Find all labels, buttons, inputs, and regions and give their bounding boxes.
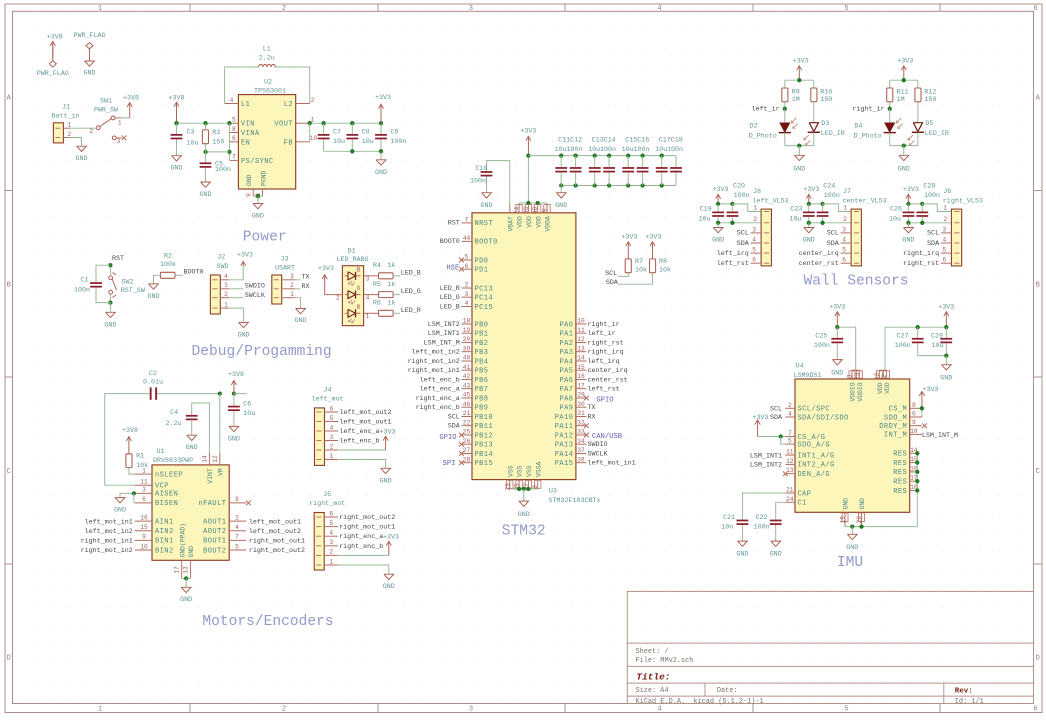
svg-text:left_ir: left_ir <box>588 330 616 338</box>
svg-text:GND: GND <box>252 213 264 221</box>
svg-text:right_mot_in1: right_mot_in1 <box>81 538 133 546</box>
wire <box>921 217 923 223</box>
svg-text:PB10: PB10 <box>475 414 494 422</box>
ground <box>518 501 530 519</box>
svg-text:40: 40 <box>463 355 471 362</box>
svg-text:6: 6 <box>752 257 756 264</box>
junction <box>915 451 919 455</box>
svg-text:Title:: Title: <box>636 672 670 683</box>
wire <box>808 204 810 212</box>
svg-text:30: 30 <box>577 401 585 408</box>
no-connect X <box>459 460 464 465</box>
wire <box>675 173 677 186</box>
IC U3 STM32F103CBTx <box>472 204 601 505</box>
svg-text:B: B <box>7 282 11 290</box>
wire <box>813 132 815 145</box>
wire <box>338 554 389 556</box>
svg-text:right_mot_in2: right_mot_in2 <box>408 358 460 366</box>
svg-text:+3V3: +3V3 <box>922 386 938 394</box>
junction <box>640 183 644 187</box>
IC U1 DRV8833PWP <box>135 448 247 579</box>
power +3V8 <box>123 94 139 118</box>
svg-text:PA13: PA13 <box>555 442 574 450</box>
junction <box>779 434 783 438</box>
power +3V3 <box>375 94 391 123</box>
svg-text:1: 1 <box>142 467 146 474</box>
svg-text:32: 32 <box>577 419 585 426</box>
svg-text:GND: GND <box>555 202 567 210</box>
svg-text:LSM_INT_M: LSM_INT_M <box>424 339 460 347</box>
wire <box>594 156 596 168</box>
svg-text:LED_B: LED_B <box>440 303 460 311</box>
junction <box>660 153 664 157</box>
wire <box>351 139 353 151</box>
svg-text:J8: J8 <box>753 188 761 196</box>
capacitor <box>589 167 601 172</box>
no-connect X <box>246 501 251 506</box>
svg-text:C25: C25 <box>815 332 827 340</box>
svg-text:5: 5 <box>844 706 848 714</box>
svg-text:J4: J4 <box>323 387 331 395</box>
svg-text:LSM_INT_M: LSM_INT_M <box>922 432 958 440</box>
power +3V3 <box>903 186 919 204</box>
svg-text:VDDIO: VDDIO <box>850 382 857 401</box>
svg-text:C4: C4 <box>170 409 178 417</box>
svg-text:2: 2 <box>330 443 334 450</box>
svg-text:GND: GND <box>294 317 306 325</box>
wire <box>295 279 301 281</box>
ground <box>104 312 116 329</box>
svg-text:PD0: PD0 <box>475 257 489 265</box>
switch SW1 PWR_SW <box>89 97 122 145</box>
svg-text:+3V3: +3V3 <box>829 303 845 311</box>
svg-text:+3V3: +3V3 <box>938 303 954 311</box>
wire <box>661 173 663 186</box>
junction <box>203 150 207 154</box>
svg-text:LED_G: LED_G <box>440 294 460 302</box>
wire <box>323 123 325 134</box>
no-connect X <box>459 451 464 456</box>
svg-text:R7: R7 <box>635 258 643 266</box>
svg-text:5: 5 <box>752 247 756 254</box>
svg-text:100n: 100n <box>567 146 583 154</box>
wire <box>889 133 891 146</box>
svg-text:right_enc_a: right_enc_a <box>339 533 383 541</box>
svg-text:3: 3 <box>142 487 146 494</box>
ground <box>793 155 805 173</box>
svg-text:1: 1 <box>366 313 370 320</box>
resistor R9 <box>782 88 800 104</box>
ground <box>75 146 87 163</box>
ground <box>228 426 240 443</box>
svg-text:6: 6 <box>232 135 236 142</box>
svg-text:Sheet: /: Sheet: / <box>636 648 669 656</box>
svg-text:+3V3: +3V3 <box>752 414 768 422</box>
svg-text:right_enc_a: right_enc_a <box>416 395 460 403</box>
capacitor C9 <box>375 128 406 146</box>
svg-text:PB11: PB11 <box>475 423 494 431</box>
ground <box>831 360 843 378</box>
capacitor <box>570 167 582 172</box>
svg-text:28: 28 <box>463 456 471 463</box>
wire <box>519 202 547 204</box>
svg-text:left_enc_b: left_enc_b <box>339 438 379 446</box>
wire <box>918 355 947 357</box>
svg-text:C29: C29 <box>931 332 943 340</box>
svg-text:D1: D1 <box>348 247 356 255</box>
svg-text:3: 3 <box>842 226 846 233</box>
svg-text:6: 6 <box>943 257 947 264</box>
svg-text:right_enc_b: right_enc_b <box>416 404 460 412</box>
svg-text:10u: 10u <box>789 215 801 223</box>
svg-text:23: 23 <box>504 483 511 491</box>
svg-text:right_ir: right_ir <box>588 321 620 329</box>
svg-text:4: 4 <box>230 97 234 104</box>
svg-text:4: 4 <box>366 295 370 302</box>
wire <box>561 185 676 187</box>
svg-text:48: 48 <box>532 207 539 215</box>
power +3V3 <box>318 265 334 295</box>
svg-text:Power: Power <box>243 230 287 246</box>
wire <box>229 308 244 322</box>
wire <box>889 102 891 109</box>
svg-text:LSM_INT1: LSM_INT1 <box>428 330 460 338</box>
wire <box>486 177 488 193</box>
wire <box>889 109 891 123</box>
svg-text:10u: 10u <box>622 146 634 154</box>
svg-text:3: 3 <box>847 374 854 378</box>
svg-text:right_mot_out1: right_mot_out1 <box>339 524 395 532</box>
svg-text:RST: RST <box>448 220 460 228</box>
svg-text:GND: GND <box>147 293 159 301</box>
svg-text:2: 2 <box>224 291 228 298</box>
svg-text:11: 11 <box>577 327 585 334</box>
svg-text:2: 2 <box>67 131 71 138</box>
svg-text:2.2u: 2.2u <box>259 54 275 62</box>
svg-text:SCL: SCL <box>770 405 782 413</box>
svg-text:C20: C20 <box>733 183 745 191</box>
svg-text:+3V3: +3V3 <box>793 57 809 65</box>
wire <box>908 203 922 205</box>
svg-text:10n: 10n <box>721 523 733 531</box>
junction <box>915 460 919 464</box>
junction <box>108 300 112 304</box>
svg-text:100n: 100n <box>600 146 616 154</box>
svg-text:1: 1 <box>290 291 294 298</box>
svg-text:R: R <box>357 304 361 311</box>
svg-text:20: 20 <box>463 336 471 343</box>
svg-text:AOUT2: AOUT2 <box>203 528 226 536</box>
svg-text:3: 3 <box>465 291 469 298</box>
junction <box>308 121 312 125</box>
wire <box>907 204 909 212</box>
svg-text:right_mot_in2: right_mot_in2 <box>81 547 133 555</box>
svg-text:AIN2: AIN2 <box>155 528 174 536</box>
power +3V8 <box>122 427 138 454</box>
svg-text:left_mot_out1: left_mot_out1 <box>249 518 301 526</box>
wire <box>351 123 353 134</box>
svg-text:left_mot_in2: left_mot_in2 <box>85 528 133 536</box>
wire <box>809 222 851 224</box>
junction <box>859 524 863 528</box>
junction <box>626 183 630 187</box>
svg-text:1M: 1M <box>792 96 800 104</box>
wire <box>921 408 923 417</box>
wire <box>731 204 733 212</box>
svg-text:LED_R: LED_R <box>401 307 421 315</box>
svg-text:+3V8: +3V8 <box>47 33 63 41</box>
svg-text:left_mot_in2: left_mot_in2 <box>412 349 460 357</box>
svg-text:1: 1 <box>330 453 334 460</box>
svg-text:RES: RES <box>893 479 907 487</box>
svg-text:3: 3 <box>290 273 294 280</box>
wire <box>575 156 577 168</box>
wire <box>775 525 777 541</box>
svg-text:SDO_M: SDO_M <box>884 414 907 422</box>
wire <box>813 80 815 88</box>
svg-text:right_rst: right_rst <box>903 260 939 268</box>
svg-text:100n: 100n <box>74 286 90 294</box>
junction <box>915 488 919 492</box>
svg-text:GND: GND <box>859 498 866 510</box>
svg-text:PA2: PA2 <box>559 340 573 348</box>
wire <box>129 468 135 475</box>
power +3V3 SDA row <box>752 414 768 436</box>
svg-text:NRST: NRST <box>475 220 494 228</box>
wire <box>380 123 382 134</box>
svg-text:right_mot_out1: right_mot_out1 <box>249 538 305 546</box>
svg-text:24: 24 <box>786 496 794 503</box>
svg-text:3: 3 <box>329 539 333 546</box>
svg-text:INT2_A/G: INT2_A/G <box>798 462 835 470</box>
svg-text:4: 4 <box>224 273 228 280</box>
power +3V3 <box>793 57 809 80</box>
svg-text:CAP: CAP <box>798 490 812 498</box>
wire <box>324 150 381 152</box>
junction <box>944 353 948 357</box>
svg-text:2: 2 <box>235 514 239 521</box>
svg-text:C10: C10 <box>475 165 487 173</box>
junction <box>660 183 664 187</box>
junction <box>920 406 924 410</box>
svg-text:BOUT1: BOUT1 <box>203 538 226 546</box>
svg-text:9: 9 <box>542 208 549 212</box>
svg-text:GPIO: GPIO <box>439 434 456 442</box>
svg-text:VSSA: VSSA <box>535 461 542 477</box>
svg-text:USART: USART <box>275 265 295 273</box>
svg-text:2: 2 <box>336 295 340 302</box>
svg-text:2: 2 <box>89 128 93 135</box>
connector J1 Batt_in <box>52 104 80 143</box>
svg-text:TX: TX <box>588 404 596 412</box>
connector J8 left_VL53 <box>751 188 789 266</box>
power +3V3 <box>621 234 637 259</box>
wire <box>338 460 385 469</box>
svg-text:PB9: PB9 <box>475 405 489 413</box>
svg-text:10u: 10u <box>243 410 255 418</box>
wire <box>393 312 400 314</box>
wire <box>510 488 538 490</box>
svg-text:41: 41 <box>463 364 471 371</box>
svg-text:+3V3: +3V3 <box>379 428 395 436</box>
svg-text:TX: TX <box>302 273 310 281</box>
svg-text:PA12: PA12 <box>555 432 574 440</box>
svg-text:13: 13 <box>786 467 794 474</box>
junction <box>850 524 854 528</box>
svg-text:1: 1 <box>67 122 71 129</box>
svg-text:10u: 10u <box>699 215 711 223</box>
svg-text:100n: 100n <box>754 523 770 531</box>
svg-text:C26: C26 <box>890 206 902 214</box>
capacitor C6 <box>228 400 255 418</box>
wire <box>560 156 562 168</box>
svg-text:5: 5 <box>465 254 469 261</box>
svg-text:GND: GND <box>188 546 195 558</box>
wire <box>205 168 207 182</box>
svg-text:6: 6 <box>842 257 846 264</box>
svg-text:6: 6 <box>329 510 333 517</box>
wire <box>916 453 918 526</box>
resistor R5 <box>379 292 394 298</box>
svg-text:5: 5 <box>844 5 848 13</box>
svg-text:left_mot_out1: left_mot_out1 <box>339 419 391 427</box>
svg-text:PA8: PA8 <box>559 395 573 403</box>
resistor R2 <box>160 272 175 278</box>
svg-text:D3: D3 <box>821 120 829 128</box>
svg-text:SWCLK: SWCLK <box>245 292 265 300</box>
svg-text:Size: A4: Size: A4 <box>636 687 669 695</box>
svg-text:PGND: PGND <box>261 170 268 186</box>
svg-text:31: 31 <box>577 410 585 417</box>
resistor R10 <box>811 88 832 104</box>
svg-text:AOUT1: AOUT1 <box>203 518 226 526</box>
connector J6 right_VL53 <box>941 188 983 266</box>
svg-text:SWD: SWD <box>216 263 228 271</box>
wire <box>618 273 628 277</box>
svg-text:U2: U2 <box>264 79 272 87</box>
svg-text:100n: 100n <box>634 146 650 154</box>
photodiode D2 D_Photo <box>749 118 798 141</box>
svg-text:SWDIO: SWDIO <box>588 441 608 449</box>
svg-text:12: 12 <box>577 336 585 343</box>
power +3V3 <box>938 303 954 327</box>
svg-text:CS_M: CS_M <box>889 406 908 414</box>
inductor L1 <box>259 45 276 67</box>
ground <box>736 541 748 558</box>
wire <box>784 109 786 123</box>
ground <box>147 284 159 301</box>
svg-text:PA10: PA10 <box>555 414 574 422</box>
svg-text:LSM9DS1: LSM9DS1 <box>794 372 822 380</box>
wire <box>742 493 785 520</box>
svg-text:C13C14: C13C14 <box>592 137 616 145</box>
junction <box>379 121 383 125</box>
svg-text:GND: GND <box>380 477 392 485</box>
svg-text:LED_IR: LED_IR <box>821 130 845 138</box>
wire <box>206 151 230 153</box>
svg-text:6: 6 <box>912 411 916 418</box>
svg-text:R8: R8 <box>659 258 667 266</box>
svg-text:left_enc_a: left_enc_a <box>420 386 460 394</box>
wire <box>527 156 529 203</box>
wire <box>785 145 814 147</box>
svg-text:C: C <box>1036 468 1040 476</box>
svg-text:C7: C7 <box>333 128 341 136</box>
svg-text:1k: 1k <box>388 300 396 308</box>
svg-text:26: 26 <box>463 438 471 445</box>
svg-text:PA5: PA5 <box>559 368 573 376</box>
svg-text:LSM_INT1: LSM_INT1 <box>750 452 782 460</box>
ground <box>252 204 264 221</box>
svg-text:VDD: VDD <box>535 216 542 228</box>
svg-text:39: 39 <box>463 345 471 352</box>
capacitor <box>817 212 829 217</box>
svg-text:100n: 100n <box>470 178 486 186</box>
svg-text:PB5: PB5 <box>475 368 489 376</box>
wire <box>310 122 381 124</box>
svg-text:2: 2 <box>753 216 757 223</box>
junction <box>716 221 720 225</box>
junction <box>820 221 824 225</box>
svg-text:19: 19 <box>840 516 847 524</box>
power +3V3 <box>379 428 395 450</box>
svg-text:7: 7 <box>232 154 236 161</box>
svg-text:AISEN: AISEN <box>155 491 178 499</box>
no-connect X <box>584 396 589 401</box>
wire <box>836 327 838 338</box>
svg-text:6: 6 <box>142 496 146 503</box>
capacitor <box>916 212 928 217</box>
junction <box>920 221 924 225</box>
svg-text:5: 5 <box>329 520 333 527</box>
IC U2 TPS63001 <box>225 79 318 197</box>
svg-text:10k: 10k <box>659 267 671 275</box>
svg-text:SPI: SPI <box>443 460 456 468</box>
svg-text:20: 20 <box>856 516 863 524</box>
svg-text:J7: J7 <box>843 188 851 196</box>
svg-text:nSLEEP: nSLEEP <box>155 471 183 479</box>
svg-text:PA0: PA0 <box>559 321 573 329</box>
svg-text:GND: GND <box>375 169 387 177</box>
wire <box>109 265 111 275</box>
wire <box>205 144 207 163</box>
wire <box>851 527 853 535</box>
svg-text:left_enc_b: left_enc_b <box>420 376 460 384</box>
junction <box>573 153 577 157</box>
svg-text:BIN2: BIN2 <box>155 547 174 555</box>
junction <box>797 143 801 147</box>
junction <box>807 221 811 225</box>
svg-text:R11: R11 <box>897 88 909 96</box>
svg-text:J2: J2 <box>217 254 225 262</box>
svg-text:VSS: VSS <box>517 465 524 477</box>
svg-text:GND: GND <box>186 444 198 452</box>
capacitor C29 <box>931 332 952 350</box>
svg-text:VOUT: VOUT <box>274 121 293 129</box>
svg-text:GND: GND <box>736 550 748 558</box>
svg-text:PA7: PA7 <box>559 386 573 394</box>
svg-text:LSM_INT2: LSM_INT2 <box>750 462 782 470</box>
wire <box>70 138 82 147</box>
connector J4 left_mot <box>311 387 343 466</box>
svg-text:Motors/Encoders: Motors/Encoders <box>202 614 333 630</box>
svg-text:150: 150 <box>820 96 832 104</box>
svg-text:1: 1 <box>329 558 333 565</box>
svg-text:34: 34 <box>577 438 585 445</box>
svg-text:right_mot_out2: right_mot_out2 <box>249 547 305 555</box>
svg-text:PB6: PB6 <box>475 377 489 385</box>
svg-text:GND: GND <box>228 435 240 443</box>
